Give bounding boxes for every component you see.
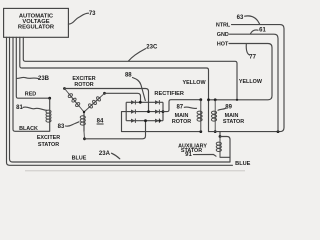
svg-text:61: 61 [259,27,266,33]
svg-text:BLUE: BLUE [72,155,87,161]
svg-text:EXCITER: EXCITER [72,76,95,82]
svg-text:77: 77 [249,55,256,61]
svg-text:BLACK: BLACK [19,126,38,132]
svg-text:HOT: HOT [217,42,229,48]
svg-text:81: 81 [16,105,23,111]
svg-text:87: 87 [176,105,183,111]
svg-text:88: 88 [125,72,132,78]
svg-text:ROTOR: ROTOR [74,82,93,88]
svg-text:63: 63 [237,15,244,21]
svg-text:23B: 23B [38,76,50,82]
svg-text:BLUE: BLUE [235,161,250,167]
svg-text:YELLOW: YELLOW [182,80,206,86]
svg-text:91: 91 [185,152,192,158]
svg-text:EXCITER: EXCITER [37,135,60,141]
svg-text:ROTOR: ROTOR [172,119,191,125]
svg-text:23C: 23C [146,44,158,50]
svg-text:23A: 23A [99,151,111,157]
svg-text:YELLOW: YELLOW [239,79,263,85]
svg-text:73: 73 [89,11,96,17]
svg-text:RED: RED [25,91,36,97]
svg-text:GND: GND [217,32,229,38]
svg-text:STATOR: STATOR [38,142,59,148]
svg-text:NTRL: NTRL [216,23,231,29]
svg-text:RECTIFIER: RECTIFIER [154,91,184,97]
svg-text:REGULATOR: REGULATOR [18,25,55,31]
svg-text:89: 89 [225,105,232,111]
svg-text:83: 83 [58,124,65,130]
svg-text:STATOR: STATOR [223,119,244,125]
